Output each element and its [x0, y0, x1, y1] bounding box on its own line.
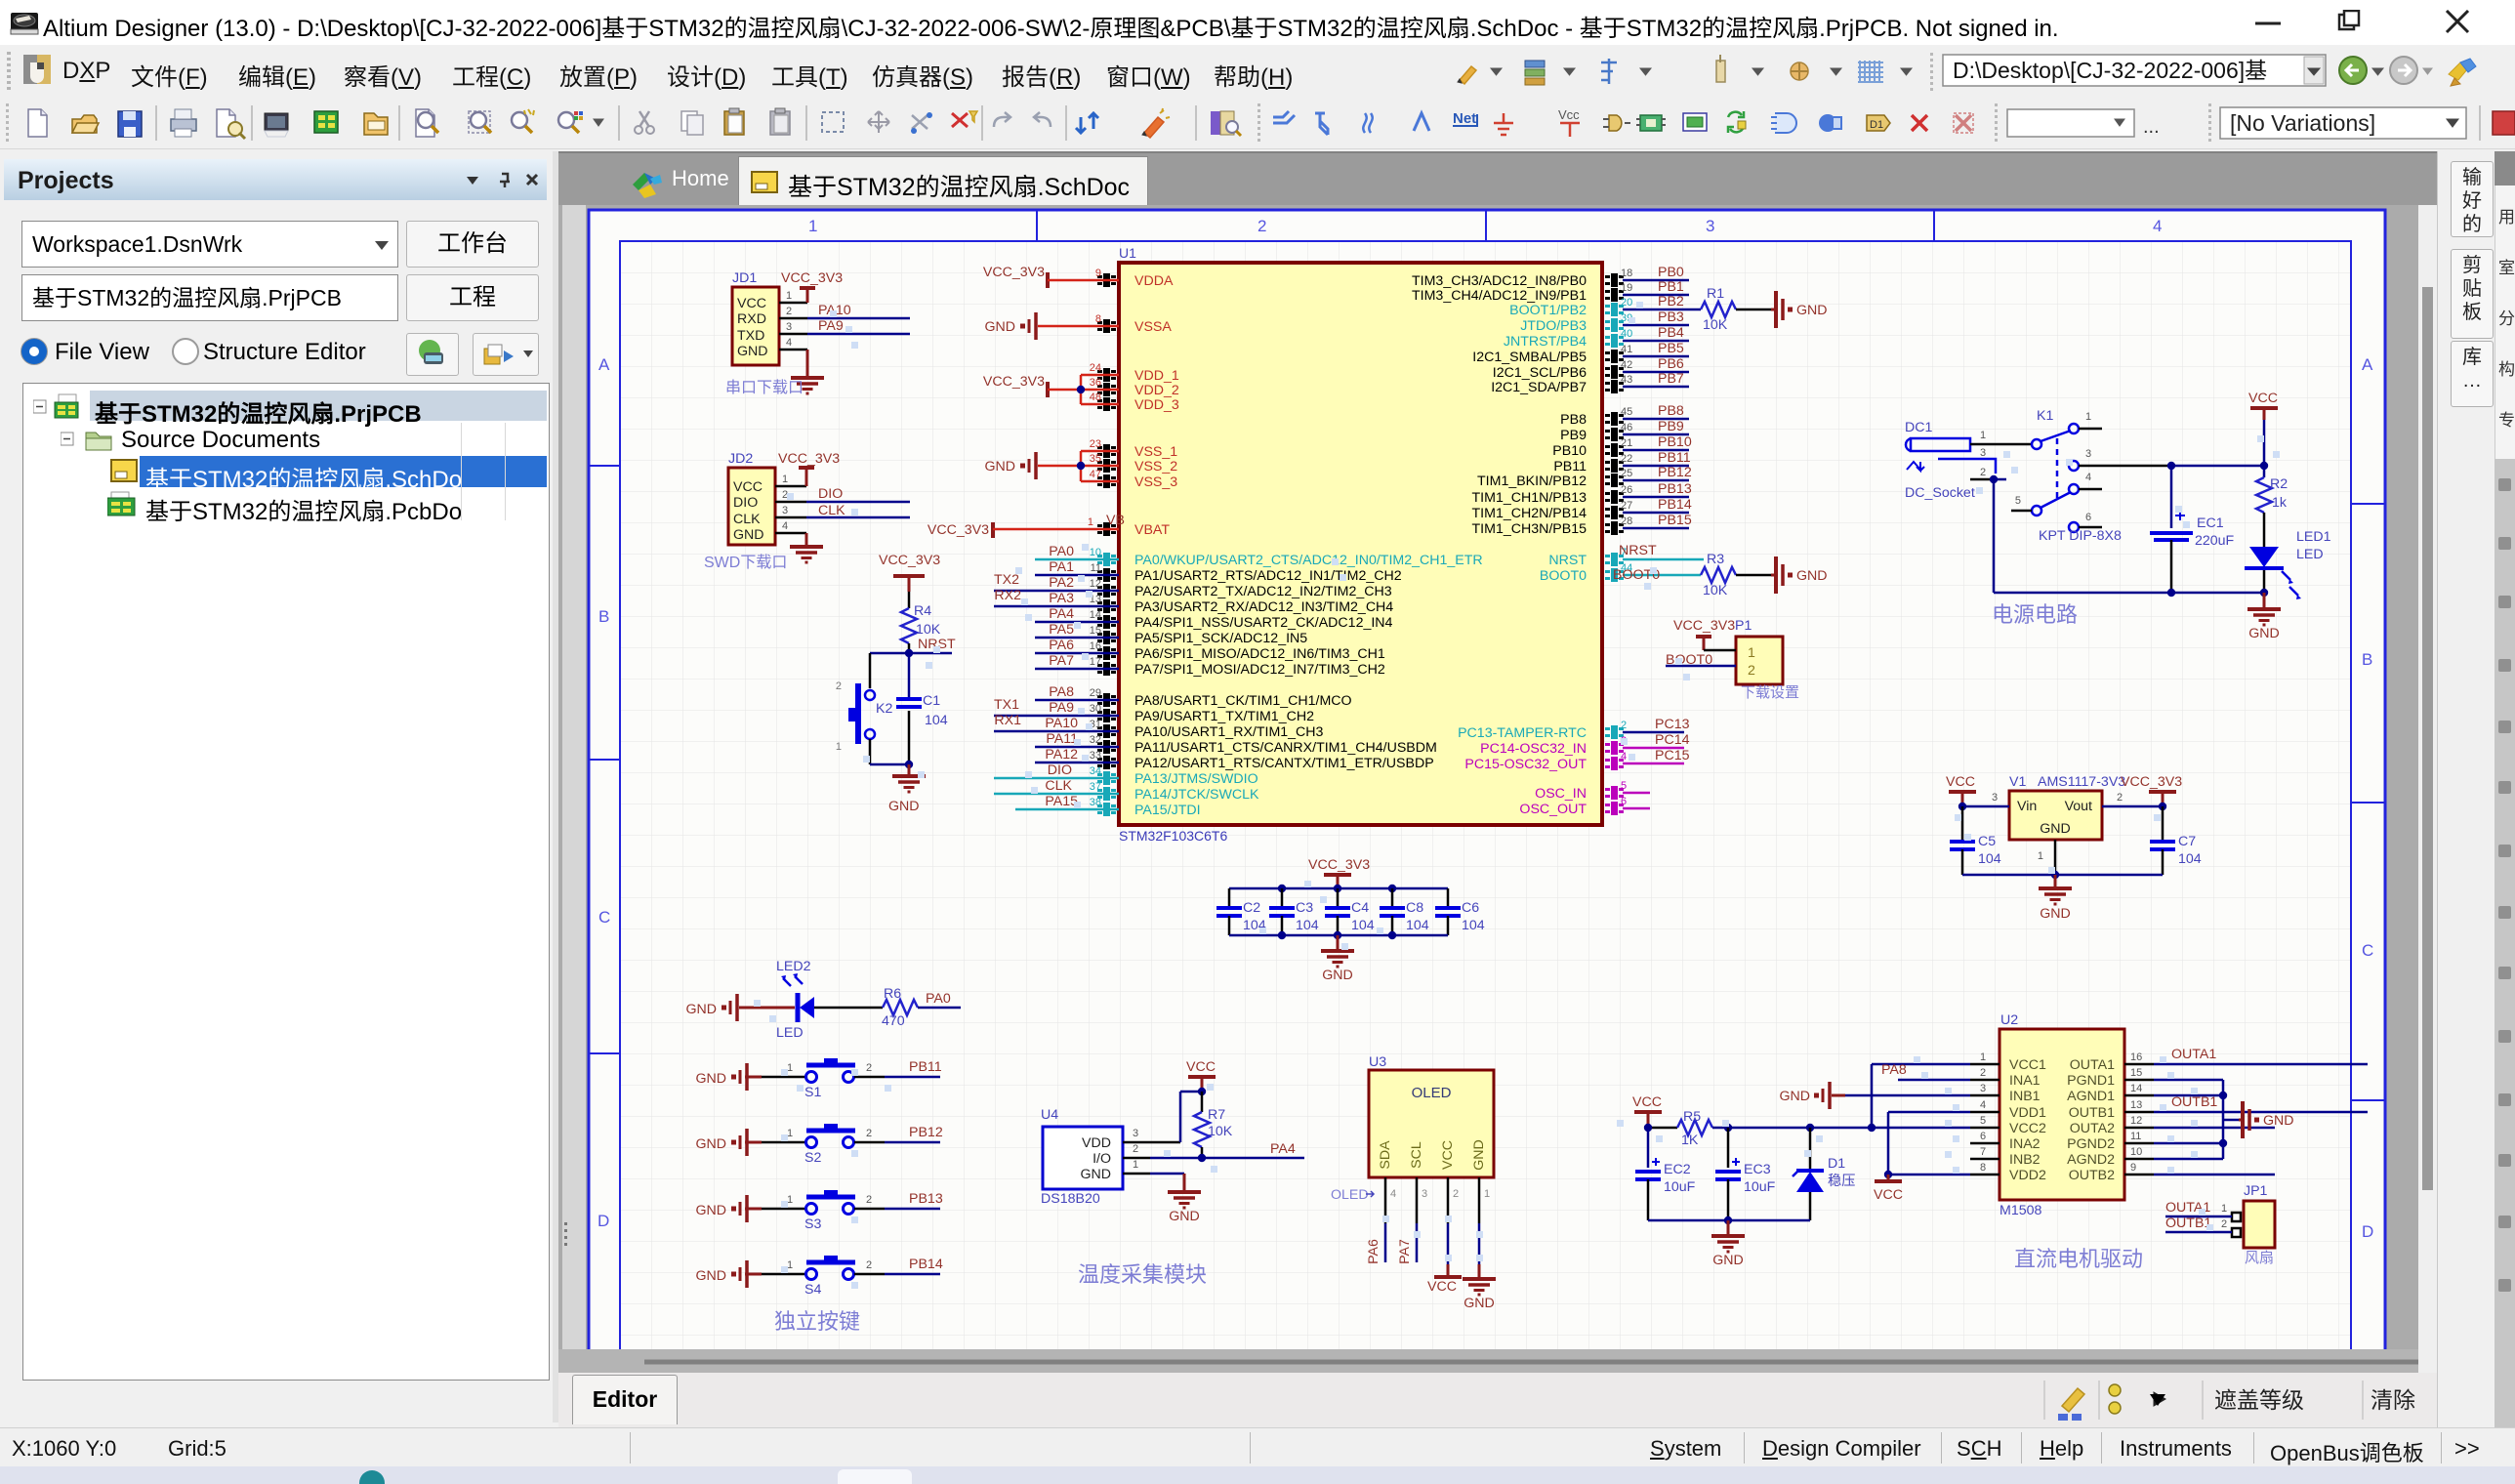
svg-text:PB10: PB10 [1552, 443, 1587, 459]
U1 pin PB10 (pin 21) [1605, 443, 1624, 457]
svg-text:1: 1 [2085, 411, 2091, 423]
junction VCC1 [1868, 1124, 1876, 1132]
svg-text:VCC: VCC [733, 479, 763, 495]
svg-text:C2: C2 [1243, 900, 1260, 916]
K1 pin5 wire [2011, 510, 2032, 513]
U1 pin PB2 (pin 20) [1605, 303, 1624, 316]
svg-text:D: D [2362, 1222, 2373, 1241]
svg-text:PB15: PB15 [1658, 513, 1692, 528]
svg-text:40: 40 [1621, 328, 1632, 340]
svg-text:INB2: INB2 [2009, 1152, 2041, 1168]
compile indicator dots [830, 310, 837, 317]
svg-text:D1: D1 [1828, 1156, 1845, 1172]
junction VDD2 [1884, 1171, 1892, 1178]
svg-text:12: 12 [2130, 1115, 2142, 1127]
svg-text:R3: R3 [1707, 552, 1724, 567]
svg-text:PA9: PA9 [1049, 700, 1074, 716]
wire LED1 to GND rail [2263, 570, 2266, 593]
ground bar at R3 [1771, 574, 1775, 577]
svg-text:SDA: SDA [1378, 1140, 1393, 1170]
svg-text:41: 41 [1621, 344, 1632, 355]
svg-text:25: 25 [1621, 468, 1632, 479]
svg-text:6: 6 [1980, 1131, 1986, 1142]
wire U2 gnd rail [1648, 1219, 1810, 1222]
svg-text:PGND1: PGND1 [2067, 1073, 2115, 1089]
U1 power pin VDD_1 (pin 24) [1097, 368, 1116, 382]
svg-text:PA11/USART1_CTS/CANRX/TIM1_CH4: PA11/USART1_CTS/CANRX/TIM1_CH4/USBDM [1134, 740, 1437, 756]
svg-text:DIO: DIO [733, 495, 758, 511]
svg-text:PB11: PB11 [1658, 450, 1691, 466]
junction bot C8 [1388, 931, 1396, 939]
svg-text:104: 104 [1296, 918, 1319, 933]
LED LED2 [796, 993, 801, 1022]
K1 pin3 wire [2079, 465, 2171, 468]
svg-text:TX2: TX2 [994, 572, 1019, 588]
wire RX2/PA3 [994, 605, 1119, 608]
svg-text:TIM1_CH3N/PB15: TIM1_CH3N/PB15 [1472, 521, 1587, 537]
svg-text:104: 104 [925, 713, 948, 728]
wire R7 bottom [1201, 1147, 1204, 1158]
svg-text:29: 29 [1090, 687, 1101, 699]
svg-text:VBAT: VBAT [1134, 522, 1170, 538]
wire VDD up [1179, 1092, 1182, 1142]
svg-text:VDDA: VDDA [1134, 273, 1174, 289]
svg-text:22: 22 [1621, 453, 1632, 465]
junction top C3 [1278, 885, 1286, 892]
U1 pin PA11 (pin 32) [1097, 740, 1116, 754]
wire DC1 pin2 node [1994, 478, 2006, 481]
svg-text:R7: R7 [1208, 1107, 1225, 1123]
svg-text:18: 18 [1621, 268, 1632, 279]
svg-text:PA15: PA15 [1045, 794, 1078, 809]
svg-text:104: 104 [1462, 918, 1485, 933]
svg-text:...: ... [2143, 116, 2160, 138]
svg-text:GND: GND [2040, 906, 2071, 922]
wire PB14 [1623, 512, 1689, 515]
junction R7 top [1198, 1088, 1206, 1095]
svg-text:104: 104 [1406, 918, 1429, 933]
svg-text:AMS1117-3V3: AMS1117-3V3 [2038, 774, 2125, 790]
JP1 pin2 [2232, 1228, 2241, 1237]
wire cap bank bottom rail [1229, 934, 1448, 937]
wire R5 to VCC2 rail [1712, 1127, 1970, 1130]
wire PA1 [1035, 574, 1119, 577]
wire C1 top [908, 653, 911, 699]
svg-text:JNTRST/PB4: JNTRST/PB4 [1504, 334, 1587, 350]
wire P1 pin2 [1666, 665, 1736, 668]
svg-text:3: 3 [1992, 792, 1998, 804]
svg-text:1k: 1k [2272, 495, 2288, 511]
U1 power pin VDDA (pin 9) [1097, 273, 1116, 287]
wire PB13 [1623, 496, 1689, 499]
svg-text:A: A [598, 355, 610, 374]
U1 pin PB8 (pin 45) [1605, 412, 1624, 426]
svg-text:VCC: VCC [737, 296, 766, 311]
svg-text:OLED: OLED [1331, 1187, 1369, 1203]
junction D1 top [1806, 1124, 1814, 1132]
svg-text:INA2: INA2 [2009, 1136, 2041, 1152]
zone numbers [598, 217, 2373, 1241]
U1 pin PA13 (pin 34) [1097, 771, 1116, 785]
wire JD2 DIO [806, 501, 910, 504]
svg-text:LED: LED [2296, 547, 2324, 562]
wire PC14 [1623, 747, 1684, 750]
wire JD1 RXD to PA10 [807, 317, 910, 320]
wire EC1 vertical [2170, 466, 2173, 528]
svg-text:2: 2 [1980, 467, 1986, 478]
wire JD2 GND [805, 533, 808, 545]
svg-text:NRST: NRST [1619, 543, 1657, 558]
svg-text:GND: GND [888, 799, 920, 814]
svg-text:48: 48 [1090, 392, 1101, 403]
wire NRST node [870, 652, 952, 655]
wire PA0 [1035, 558, 1119, 561]
resistor R6 [883, 1000, 918, 1015]
svg-text:1: 1 [1980, 1051, 1986, 1063]
wire S4 to PB14 [854, 1273, 885, 1276]
svg-text:OUTB1: OUTB1 [2165, 1216, 2211, 1231]
svg-text:PA3/USART2_RX/ADC12_IN3/TIM2_C: PA3/USART2_RX/ADC12_IN3/TIM2_CH4 [1134, 599, 1393, 615]
K1 pin1 wire [2079, 428, 2102, 431]
wire PA8 [1035, 699, 1119, 702]
wire GND to LED2 [739, 1007, 795, 1010]
svg-text:OUTA1: OUTA1 [2070, 1057, 2115, 1073]
svg-text:2: 2 [1980, 1067, 1986, 1079]
svg-text:3: 3 [1980, 447, 1986, 459]
svg-text:45: 45 [1621, 406, 1632, 418]
U1 pin OSC_OUT (pin 6) [1605, 802, 1624, 815]
wire R6 to PA0 [918, 1007, 961, 1010]
svg-text:17: 17 [1090, 656, 1101, 668]
ground at V1 [2039, 888, 2072, 904]
wire I/O to PA4 [1150, 1157, 1304, 1160]
svg-text:2: 2 [2221, 1218, 2227, 1230]
U1 pin PB13 (pin 26) [1605, 490, 1624, 504]
svg-text:C7: C7 [2178, 834, 2196, 849]
U4 pin3 wire [1123, 1141, 1180, 1144]
right vertical tab column [2437, 151, 2515, 1427]
svg-text:PC14: PC14 [1655, 732, 1690, 748]
V1 pin3 wire [1962, 805, 2009, 808]
wire PB2 [1623, 309, 1701, 311]
left Projects panel [0, 151, 558, 1422]
svg-text:9: 9 [1095, 268, 1101, 279]
svg-text:VCC_3V3: VCC_3V3 [781, 270, 843, 286]
svg-text:12: 12 [1090, 578, 1101, 590]
svg-text:1: 1 [1980, 430, 1986, 441]
svg-text:VCC_3V3: VCC_3V3 [879, 553, 940, 568]
svg-text:5: 5 [1980, 1115, 1986, 1127]
wire VCC_3V3 to R4 [908, 592, 911, 608]
junction GND rail 1 [2167, 589, 2175, 597]
U1 pin BOOT0 (pin 44) [1605, 568, 1624, 582]
svg-text:I2C1_SDA/PB7: I2C1_SDA/PB7 [1491, 380, 1587, 395]
svg-text:10uF: 10uF [1664, 1179, 1696, 1195]
svg-text:OUTB1: OUTB1 [2171, 1094, 2217, 1110]
svg-text:10K: 10K [916, 622, 941, 638]
svg-text:PA8/USART1_CK/TIM1_CH1/MCO: PA8/USART1_CK/TIM1_CH1/MCO [1134, 693, 1352, 709]
svg-text:PA1/USART2_RTS/ADC12_IN1/TIM2_: PA1/USART2_RTS/ADC12_IN1/TIM2_CH2 [1134, 568, 1402, 584]
svg-text:VCC_3V3: VCC_3V3 [1673, 618, 1735, 634]
svg-text:GND: GND [2040, 821, 2071, 837]
svg-text:2: 2 [786, 306, 792, 317]
wire TX2/PA2 [994, 590, 1119, 593]
document tab bar [558, 151, 2437, 207]
svg-text:串口下载口: 串口下载口 [725, 379, 804, 396]
U1 power pin VSS_2 (pin 35) [1097, 459, 1116, 473]
svg-text:PA6: PA6 [1366, 1239, 1381, 1264]
wire CLK/PA14 [994, 793, 1119, 796]
junction EC3 top [1724, 1124, 1732, 1132]
svg-text:TXD: TXD [737, 328, 764, 344]
svg-text:VCC: VCC [1440, 1140, 1456, 1170]
svg-text:4: 4 [782, 520, 788, 532]
connector P1 body [1736, 637, 1783, 684]
U1 pin PC14-OSC32_IN (pin 3) [1605, 741, 1624, 755]
junction R2 top [2260, 462, 2268, 470]
svg-text:GND: GND [1169, 1209, 1200, 1224]
svg-text:RX2: RX2 [994, 588, 1021, 603]
U1 pin PB5 (pin 41) [1605, 350, 1624, 363]
svg-text:PA12: PA12 [1045, 747, 1078, 763]
svg-text:23: 23 [1090, 438, 1101, 450]
svg-text:33: 33 [1090, 750, 1101, 762]
svg-text:PA0: PA0 [1049, 544, 1074, 559]
svg-text:S4: S4 [804, 1282, 821, 1298]
svg-text:PA10/USART1_RX/TIM1_CH3: PA10/USART1_RX/TIM1_CH3 [1134, 724, 1324, 740]
svg-text:47: 47 [1090, 469, 1101, 480]
svg-text:2: 2 [1621, 720, 1627, 731]
wire S3 to PB13 [854, 1208, 885, 1211]
svg-text:稳压: 稳压 [1828, 1174, 1855, 1189]
junction EC1 top [2167, 462, 2175, 470]
svg-text:DIO: DIO [818, 486, 843, 502]
U1 pin PA1 (pin 11) [1097, 568, 1116, 582]
svg-text:VCC_3V3: VCC_3V3 [928, 522, 989, 538]
svg-text:PC15-OSC32_OUT: PC15-OSC32_OUT [1464, 757, 1587, 772]
U1 pin PA9 (pin 30) [1097, 709, 1116, 722]
svg-text:16: 16 [2130, 1051, 2142, 1063]
svg-text:28: 28 [1621, 515, 1632, 527]
U1 pin PB14 (pin 27) [1605, 506, 1624, 519]
U1 power pin VDD_2 (pin 36) [1097, 383, 1116, 396]
K1 blade lower [2041, 492, 2071, 508]
svg-text:4: 4 [2085, 472, 2091, 483]
svg-text:AGND2: AGND2 [2067, 1152, 2115, 1168]
U1 pin PB9 (pin 46) [1605, 428, 1624, 441]
svg-text:8: 8 [1095, 313, 1101, 325]
wire to GND [908, 764, 911, 774]
zone divider ticks left [590, 466, 620, 1053]
svg-text:LED: LED [776, 1025, 804, 1041]
junction GND rail 2 [2260, 589, 2268, 597]
svg-text:PA8: PA8 [1881, 1062, 1907, 1078]
ground bar at R1 [1771, 309, 1775, 311]
junction gnd rail [1724, 1216, 1732, 1224]
U1 pin PB4 (pin 40) [1605, 334, 1624, 348]
resistor R4 [901, 608, 917, 643]
svg-text:TIM1_CH1N/PB13: TIM1_CH1N/PB13 [1472, 490, 1587, 506]
wire PB0 [1623, 279, 1689, 282]
svg-text:D:\Desktop\[CJ-32-2022-006]基: D:\Desktop\[CJ-32-2022-006]基 [1953, 58, 2267, 83]
svg-text:SCL: SCL [1409, 1141, 1424, 1169]
svg-text:PA4/SPI1_NSS/USART2_CK/ADC12_I: PA4/SPI1_NSS/USART2_CK/ADC12_IN4 [1134, 615, 1393, 631]
U1 pin PB1 (pin 19) [1605, 288, 1624, 302]
svg-text:PB13: PB13 [909, 1191, 943, 1207]
wire R2 to LED1 [2263, 513, 2266, 547]
wire PB6 [1623, 371, 1689, 374]
svg-text:1: 1 [1484, 1188, 1490, 1200]
svg-text:R1: R1 [1707, 286, 1724, 302]
wire NRST to K2 [869, 653, 872, 688]
switch S2 [806, 1137, 817, 1148]
JD2 pin 4 [775, 532, 806, 535]
junction AGND1 [2219, 1092, 2227, 1099]
svg-text:VCC: VCC [2248, 391, 2278, 406]
svg-text:OUTB1: OUTB1 [2069, 1105, 2115, 1121]
svg-text:PA0/WKUP/USART2_CTS/ADC12_IN0/: PA0/WKUP/USART2_CTS/ADC12_IN0/TIM2_CH1_E… [1134, 553, 1483, 568]
wire VCC rail to R2 [2263, 466, 2266, 477]
U1 pin PB7 (pin 43) [1605, 380, 1624, 393]
wire PB7 [1623, 386, 1689, 389]
svg-text:GND: GND [984, 319, 1015, 335]
wire OUTA1 [2154, 1063, 2368, 1066]
wire GND rail [1994, 592, 2264, 595]
svg-text:K1: K1 [2037, 408, 2053, 424]
svg-text:PA11: PA11 [1046, 731, 1078, 747]
U1 pin PB15 (pin 28) [1605, 521, 1624, 535]
svg-text:V1: V1 [2009, 774, 2026, 790]
vertical scrollbar [2418, 205, 2437, 1373]
resistor R1 [1701, 302, 1736, 317]
wire V1 gnd rail [1962, 874, 2163, 877]
svg-text:470: 470 [882, 1013, 905, 1029]
wire PGND2 [2154, 1142, 2223, 1145]
U1 pin PA14 (pin 37) [1097, 787, 1116, 801]
wire U4 GND [1150, 1173, 1184, 1175]
svg-text:Net: Net [1453, 110, 1476, 127]
svg-text:INA1: INA1 [2009, 1073, 2041, 1089]
junction PGND2 [2219, 1139, 2227, 1147]
switch S4 [806, 1269, 817, 1280]
svg-text:26: 26 [1621, 484, 1632, 496]
resistor R3 [1701, 567, 1736, 583]
power port VCC at U2 [1875, 1179, 1902, 1183]
svg-text:EC1: EC1 [2197, 515, 2224, 531]
U1 pin PB6 (pin 42) [1605, 365, 1624, 379]
svg-text:RX1: RX1 [994, 713, 1021, 728]
svg-text:温度采集模块: 温度采集模块 [1078, 1262, 1207, 1287]
capacitor C1 [896, 699, 922, 707]
svg-text:VCC_3V3: VCC_3V3 [2121, 774, 2182, 790]
svg-text:GND: GND [1796, 568, 1828, 584]
svg-text:Vout: Vout [2065, 799, 2092, 814]
svg-text:3: 3 [786, 321, 792, 333]
DC1 pin 1 [1970, 443, 2031, 446]
wire C1 bottom [908, 711, 911, 764]
svg-text:PGND2: PGND2 [2067, 1136, 2115, 1152]
junction V1 out [2159, 803, 2166, 810]
svg-text:4: 4 [1621, 751, 1627, 763]
svg-text:PA2: PA2 [1049, 575, 1074, 591]
svg-text:VCC1: VCC1 [2009, 1057, 2046, 1073]
svg-text:1: 1 [782, 474, 788, 485]
svg-text:清除: 清除 [2371, 1387, 2415, 1413]
wire gnd branch [2223, 1119, 2239, 1122]
wire PC15 [1623, 763, 1684, 765]
svg-text:GND: GND [695, 1136, 726, 1152]
svg-text:104: 104 [1978, 851, 2001, 867]
wire PGND1 [2154, 1079, 2223, 1082]
junction NRST [905, 649, 913, 657]
wire R3 to GND [1736, 574, 1771, 577]
svg-text:1: 1 [2221, 1203, 2227, 1215]
svg-text:10: 10 [2130, 1146, 2142, 1158]
svg-text:GND: GND [2263, 1113, 2294, 1129]
svg-text:PB3: PB3 [1658, 309, 1684, 325]
svg-text:PB12: PB12 [909, 1125, 943, 1140]
svg-text:PB0: PB0 [1658, 265, 1684, 280]
JD1 pin 1 [779, 302, 807, 305]
svg-text:13: 13 [2130, 1099, 2142, 1111]
wire RX1/PA10 [994, 730, 1119, 733]
svg-text:34: 34 [1090, 765, 1101, 777]
svg-text:U1: U1 [1119, 245, 1136, 261]
U1 pin OSC_IN (pin 5) [1605, 786, 1624, 800]
svg-text:S2: S2 [804, 1150, 821, 1166]
wire AGND1 [2154, 1094, 2223, 1097]
wire DC1 down [1993, 479, 1996, 593]
svg-text:CLK: CLK [818, 503, 845, 518]
svg-text:PB5: PB5 [1658, 341, 1684, 356]
wire BOOT0 [1623, 574, 1701, 577]
resistor R5 [1677, 1120, 1712, 1135]
svg-text:TIM1_BKIN/PB12: TIM1_BKIN/PB12 [1477, 474, 1587, 489]
capacitor C6 [1447, 888, 1450, 908]
svg-text:2: 2 [1453, 1188, 1459, 1200]
svg-text:GND: GND [1080, 1167, 1111, 1182]
wire R1 to GND [1736, 309, 1771, 311]
wire OUTB2 [2154, 1174, 2275, 1176]
svg-text:PA6: PA6 [1049, 638, 1074, 653]
svg-text:14: 14 [2130, 1083, 2142, 1094]
svg-text:I2C1_SCL/PB6: I2C1_SCL/PB6 [1493, 365, 1587, 381]
capacitor EC1 [2150, 531, 2193, 535]
svg-text:C8: C8 [1406, 900, 1423, 916]
wire U3 VCC [1447, 1223, 1450, 1264]
svg-text:VDD1: VDD1 [2009, 1105, 2046, 1121]
JD2 pin 1 [775, 485, 806, 488]
svg-text:VDD_3: VDD_3 [1134, 397, 1179, 413]
DC1 pin 2 [1970, 478, 1994, 481]
U1 pin PA6 (pin 16) [1097, 646, 1116, 660]
canvas bottom strip + horizontal scrollbar thumb [558, 1349, 2437, 1373]
svg-text:37: 37 [1090, 781, 1101, 793]
svg-text:VDD_1: VDD_1 [1134, 368, 1179, 384]
svg-text:VSSA: VSSA [1134, 319, 1172, 335]
svg-text:PB6: PB6 [1658, 356, 1684, 372]
U1 pin PA4 (pin 14) [1097, 615, 1116, 629]
U1 pin PB11 (pin 22) [1605, 459, 1624, 473]
wire VDDA [1048, 279, 1119, 282]
wire K2 bottom [869, 739, 872, 764]
svg-text:35: 35 [1090, 453, 1101, 465]
svg-text:OLED: OLED [1412, 1085, 1452, 1101]
capacitor C3 [1281, 888, 1284, 908]
svg-text:VCC: VCC [1427, 1279, 1457, 1295]
svg-text:PA7/SPI1_MOSI/ADC12_IN7/TIM3_C: PA7/SPI1_MOSI/ADC12_IN7/TIM3_CH2 [1134, 662, 1385, 678]
U1 power pin VSS_1 (pin 23) [1097, 444, 1116, 458]
